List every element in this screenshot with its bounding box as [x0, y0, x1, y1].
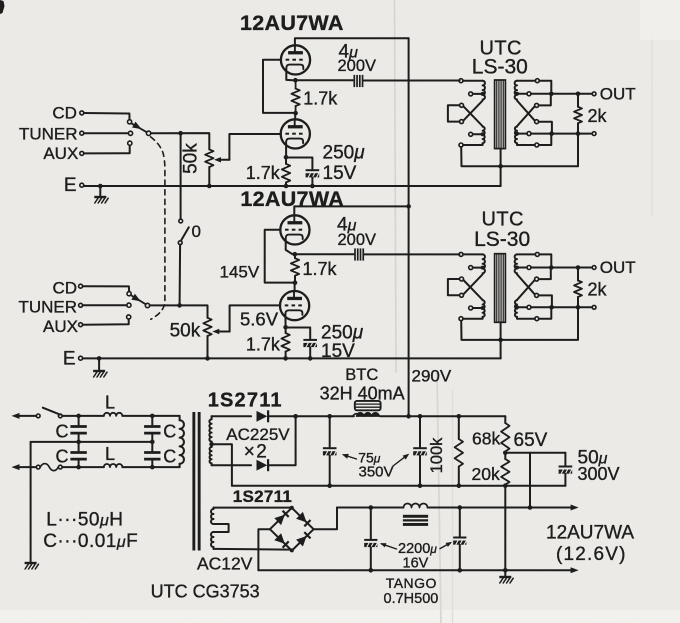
- capacitor 75u A: [329, 416, 331, 447]
- contact AUX ch2: [127, 315, 131, 319]
- wire cathode to bypass cap ch2: [286, 328, 311, 339]
- wire wiper to pot ch2: [150, 305, 208, 317]
- terminal E ch1: [80, 183, 84, 187]
- wire bridge DC- out: [258, 529, 270, 570]
- wire center tap to ground bus: [212, 444, 232, 485]
- contact CD ch1: [128, 120, 132, 124]
- node 1.7k bottom E bus ch2: [283, 356, 288, 361]
- transformer T2 primary bottom terminal: [459, 317, 463, 321]
- wire CD to contact ch1: [84, 113, 130, 120]
- transformer T1 primary tap E: [469, 132, 473, 136]
- capacitor 2200u A: [370, 508, 372, 539]
- node E ground junction ch2: [97, 356, 102, 361]
- node 2200u-b bottom: [458, 568, 463, 573]
- contact AUX ch1: [128, 141, 132, 145]
- wire switch to ch2 wiper line: [179, 245, 182, 304]
- node 75u-a top junction: [327, 414, 332, 419]
- terminal CD ch1: [80, 111, 84, 115]
- wire line top 2: [122, 415, 179, 417]
- capacitor 4u ch2: [354, 248, 356, 260]
- terminal TUNER ch1: [80, 131, 84, 135]
- transformer T1 strap right C: [535, 103, 539, 107]
- capacitor 250u ch1: [306, 169, 320, 171]
- AC plug arrow top: [12, 413, 20, 419]
- transformer T2 secondary tap E2: [527, 305, 531, 309]
- transformer T2 secondary winding lower: [515, 300, 517, 317]
- terminal T2 OUT cold: [592, 305, 596, 309]
- node 100k top junction: [457, 414, 462, 419]
- switch contact top A: [36, 414, 40, 418]
- wire HV lower line: [212, 464, 252, 466]
- AC plug arrow bottom: [12, 464, 20, 470]
- wire T2 ground to E bus: [500, 340, 502, 359]
- node V1b cathode junction: [284, 155, 289, 160]
- transformer T1 primary winding lower: [483, 127, 485, 144]
- wire E bus ch2: [83, 357, 501, 359]
- resistor 1.7k ch2 upper: [294, 254, 296, 258]
- choke BTC core: [355, 401, 381, 410]
- node 2200u-a bottom: [369, 568, 374, 573]
- pot wiper arrow ch1: [214, 157, 221, 162]
- transformer T2 cross strap upper-right: [517, 280, 535, 300]
- wire pot wiper to V2b grid: [230, 305, 281, 331]
- transformer T1 secondary winding upper: [517, 80, 535, 82]
- wire PSU ground bus: [232, 485, 566, 487]
- wire line top 1: [62, 415, 104, 417]
- transformer T1 secondary tap B2: [527, 92, 531, 96]
- potentiometer 50k ch2: [203, 318, 211, 336]
- choke TANGO coil: [404, 504, 428, 508]
- transformer T2 primary tap E: [469, 306, 473, 310]
- node 75u-b top junction: [418, 414, 423, 419]
- resistor 1.7k ch1 upper: [295, 80, 297, 88]
- transformer T1 secondary top terminal: [535, 79, 539, 83]
- wire V1a grid feedback: [263, 60, 294, 113]
- node V1a cathode junction: [293, 78, 298, 83]
- diode 1S2711 D1: [257, 411, 268, 422]
- node B+ rail ch2 tap: [406, 204, 411, 209]
- wire HV top line left: [212, 415, 252, 417]
- node C2 bottom junction: [76, 465, 81, 470]
- power transformer core: [192, 412, 195, 551]
- resistor 68k: [504, 416, 506, 423]
- power transformer HV secondary upper: [211, 416, 213, 419]
- node T2 2k top junction: [576, 265, 581, 270]
- transformer T1 primary winding upper: [463, 80, 483, 82]
- power transformer HV secondary lower: [210, 447, 212, 463]
- transformer T1 cross strap upper-left: [463, 106, 482, 126]
- wire line bottom 1: [62, 466, 104, 468]
- wire cap to E bus ch2: [309, 347, 311, 358]
- inductor L lower: [104, 464, 123, 467]
- scan mark top-left edge: [0, 0, 5, 14]
- transformer T2 strap right C: [535, 277, 539, 281]
- pot wiper arrow ch2: [212, 329, 219, 334]
- diode 1S2711 D2: [257, 460, 268, 471]
- label arrow to 75u A: [344, 455, 357, 459]
- choke TANGO core: [403, 515, 428, 526]
- wire T2 A' strap: [539, 254, 551, 265]
- terminal T1 OUT hot: [592, 92, 596, 96]
- ground PSU right: [499, 576, 511, 578]
- terminal T2 OUT hot: [592, 266, 596, 270]
- terminal T1 OUT cold: [592, 132, 596, 136]
- switch wiper arm ch2: [131, 295, 146, 304]
- wire V2a grid feedback: [265, 230, 293, 283]
- node 1.7k bottom on E bus: [284, 184, 289, 189]
- mute switch lever: [181, 227, 189, 240]
- node 75u-a bottom: [327, 483, 332, 488]
- node 250u bottom E bus ch2: [308, 356, 313, 361]
- node C4 bottom junction: [150, 465, 155, 470]
- mute switch link wire: [180, 135, 182, 219]
- node T2 strap bottom junction: [549, 305, 554, 310]
- node mid bus right C junction: [150, 440, 155, 445]
- wire heater - line: [258, 569, 571, 571]
- node heater bias junction: [528, 505, 533, 510]
- wire HV top line mid: [268, 415, 354, 417]
- ground ch2: [98, 358, 100, 370]
- node heater ground junction: [503, 568, 508, 573]
- wire V1a cathode lead: [286, 69, 293, 81]
- wire mid bus to ground: [30, 442, 32, 563]
- wire AC to bridge top: [214, 507, 290, 509]
- wire T2 OUT cold line: [531, 306, 592, 308]
- wire T1 OUT hot line: [531, 93, 592, 95]
- terminal TUNER ch2: [79, 303, 83, 307]
- wire wiper to pot ch1: [151, 133, 210, 149]
- wire V2a cathode lead: [286, 239, 293, 255]
- transformer T2 cross strap upper-left: [463, 280, 482, 300]
- triode V2b: [280, 291, 309, 320]
- node mid bus left C junction: [76, 440, 81, 445]
- switch wiper arm ch1: [131, 123, 146, 132]
- wire T1 ground to E bus: [500, 166, 502, 186]
- node V1a-V1b junction: [293, 111, 298, 116]
- wire T2 F' strap: [539, 309, 552, 318]
- capacitor C3: [151, 416, 153, 426]
- node T2 2k bottom junction: [576, 305, 581, 310]
- potentiometer 50k ch1: [205, 149, 213, 167]
- wire B+ line: [380, 415, 505, 417]
- wire AUX to contact ch1: [84, 145, 130, 153]
- node V2b cathode junction: [283, 325, 288, 330]
- wire D2 to junction: [268, 416, 295, 465]
- wire cathode to bypass cap: [286, 158, 312, 169]
- wire TUNER to contact ch2: [83, 304, 127, 306]
- node HV center tap: [209, 442, 214, 447]
- node T2 strap top junction: [549, 265, 554, 270]
- switch contact top B: [58, 414, 62, 418]
- wire bridge DC+ out: [314, 508, 337, 530]
- wire pot wiper to V1b grid: [229, 134, 281, 160]
- wire TUNER to contact ch1: [84, 132, 129, 134]
- transformer T1 cross strap lower-right: [517, 101, 535, 121]
- node T1 strap bottom junction: [549, 131, 554, 136]
- resistor 2k T2: [577, 268, 579, 281]
- node 75u-b bottom: [418, 483, 423, 488]
- resistor 100k: [458, 416, 460, 439]
- terminal E ch2: [79, 356, 83, 360]
- transformer T2 cross strap lower-left: [463, 274, 482, 294]
- node C3 top junction: [150, 414, 155, 419]
- wire cap to transformer ch1: [364, 80, 460, 82]
- capacitor C2: [78, 442, 80, 452]
- triode V1a: [281, 45, 310, 74]
- wire 20k bottom to ground: [504, 486, 506, 577]
- mute switch lower contact: [178, 241, 182, 245]
- mute switch ch-link upper contact: [179, 219, 183, 223]
- capacitor 50u 300V: [564, 453, 566, 465]
- paper crease lower 2: [452, 390, 454, 623]
- node 65V junction: [503, 451, 508, 456]
- transformer T2 cross strap lower-right: [517, 274, 535, 294]
- label arrow to 75u B: [393, 455, 407, 466]
- switch contact bottom A: [36, 465, 40, 469]
- transformer T1 primary tap B: [469, 92, 473, 96]
- node 50k bottom E bus ch2: [205, 356, 210, 361]
- node C1 top junction: [76, 414, 81, 419]
- fuse squiggle: [40, 464, 58, 471]
- transformer T1 secondary winding lower: [515, 127, 517, 144]
- label arrow to 2200u B: [440, 543, 451, 549]
- wire T2 OUT hot line: [531, 267, 592, 269]
- wire cathode out ch1: [295, 79, 353, 81]
- wire cap to transformer ch2: [365, 253, 460, 255]
- wire filter mid bus: [31, 441, 153, 443]
- capacitor C4: [151, 442, 153, 452]
- node 20k bottom junction: [503, 483, 508, 488]
- ground ch1: [99, 186, 101, 197]
- transformer T2 strap right D: [535, 293, 539, 297]
- contact TUNER ch2: [127, 303, 131, 307]
- contact CD ch2: [127, 292, 131, 296]
- resistor 2k T1: [577, 94, 579, 107]
- contact TUNER ch1: [128, 131, 132, 135]
- wire T1 F' strap: [539, 136, 552, 145]
- dashed mechanical coupling: [151, 137, 165, 319]
- node T2 core ground junction: [498, 338, 503, 343]
- wire CD to contact ch2: [83, 286, 130, 291]
- wire E bus ch1: [84, 185, 501, 187]
- capacitor 75u B: [419, 416, 421, 447]
- wire V2a plate to rail: [294, 206, 408, 215]
- switch lever top: [43, 408, 60, 415]
- wire T1 A' strap: [539, 81, 551, 92]
- capacitor 2200u B: [459, 508, 461, 537]
- wire line bottom 2: [122, 466, 179, 468]
- wire junction to V1b plate: [294, 113, 296, 119]
- capacitor C1: [78, 416, 80, 426]
- wire AUX to contact ch2: [83, 319, 129, 325]
- node V2a cathode junction: [293, 252, 298, 257]
- paper crease upper: [395, 0, 397, 372]
- node B+ rail junction: [406, 414, 411, 419]
- node E ground junction ch1: [98, 184, 103, 189]
- wire T1 core ground drop: [500, 149, 502, 166]
- wire V2b cathode lead: [284, 314, 286, 327]
- power transformer primary winding: [179, 416, 181, 420]
- terminal AUX ch1: [80, 151, 84, 155]
- triode V1b: [281, 119, 310, 148]
- capacitor 4u ch1: [353, 75, 355, 87]
- node 100k bottom: [457, 483, 462, 488]
- wire V1a plate to B+ rail: [295, 38, 409, 45]
- transformer T1 cross strap lower-left: [463, 101, 482, 121]
- transformer T1 strap loop left: [460, 103, 464, 107]
- resistor 20k: [504, 453, 506, 459]
- terminal AUX ch2: [79, 323, 83, 327]
- node 2200u-a top: [369, 505, 374, 510]
- transformer T1 strap right D: [535, 120, 539, 124]
- wire cathode out ch2: [295, 253, 354, 255]
- capacitor 250u ch2: [303, 339, 317, 341]
- node 250u bottom on E bus: [310, 184, 315, 189]
- node T1 2k bottom junction: [576, 131, 581, 136]
- paper crease right: [651, 40, 653, 215]
- ground filter: [25, 562, 37, 564]
- wire T2 core ground drop: [500, 323, 502, 340]
- node T1 strap top junction: [549, 92, 554, 97]
- wire T2 ground bus: [461, 309, 578, 340]
- wire cap to E bus ch1: [311, 178, 313, 186]
- node V2a-V2b junction: [293, 280, 298, 285]
- node T1 2k top junction: [576, 92, 581, 97]
- transformer T2 core: [495, 254, 506, 323]
- node selector link junction ch1: [178, 131, 183, 136]
- paper crease lower: [437, 372, 441, 623]
- choke BTC coil: [356, 413, 364, 417]
- transformer T2 secondary tap B2: [527, 266, 531, 270]
- transformer T1 secondary tap E2: [527, 132, 531, 136]
- label arrow to 2200u A: [382, 544, 397, 549]
- wire B+ rail: [408, 38, 410, 416]
- wire 65V line: [505, 452, 565, 454]
- wire 65V to heater line: [529, 453, 531, 508]
- wire AC to bridge bottom: [214, 548, 291, 551]
- terminal CD ch2: [79, 284, 83, 288]
- transformer T2 secondary top terminal: [535, 252, 539, 256]
- switch pivot ch2: [145, 303, 149, 307]
- transformer T1 primary top terminal: [459, 79, 463, 83]
- wire T1 ground bus: [461, 136, 578, 167]
- wire junction to V2b plate: [294, 283, 296, 291]
- switch contact bottom B: [58, 465, 62, 469]
- wire T1 OUT cold line: [531, 133, 592, 135]
- node 2200u-b top: [458, 505, 463, 510]
- transformer T1 core: [495, 80, 506, 149]
- wire heater + line left: [337, 507, 404, 509]
- power transformer 12V secondary: [213, 508, 215, 509]
- bridge rectifier 1S2711: [270, 508, 314, 551]
- transformer T2 secondary winding upper: [517, 253, 535, 255]
- transformer T2 secondary bottom terminal: [535, 317, 539, 321]
- transformer T2 primary top terminal: [459, 252, 463, 256]
- wire heater + line right: [428, 507, 572, 509]
- transformer T1 cross strap upper-right: [517, 106, 535, 126]
- transformer T2 primary winding upper: [463, 253, 483, 255]
- node T1 core ground junction: [498, 164, 503, 169]
- wire V1b cathode lead: [285, 143, 287, 158]
- triode V2a: [280, 215, 309, 244]
- node selector link junction ch2: [177, 303, 182, 308]
- resistor 1.7k ch2 lower: [285, 327, 287, 333]
- node 50k bottom on E bus: [207, 184, 212, 189]
- transformer T2 strap loop left: [460, 277, 464, 281]
- node D2 return junction: [293, 414, 298, 419]
- transformer T2 primary tap B: [469, 266, 473, 270]
- switch pivot ch1: [146, 131, 150, 135]
- transformer T1 secondary bottom terminal: [535, 143, 539, 147]
- transformer T1 primary bottom terminal: [459, 143, 463, 147]
- resistor 1.7k ch1 lower: [282, 164, 290, 183]
- inductor L upper: [104, 413, 123, 416]
- transformer T2 primary winding lower: [483, 300, 485, 317]
